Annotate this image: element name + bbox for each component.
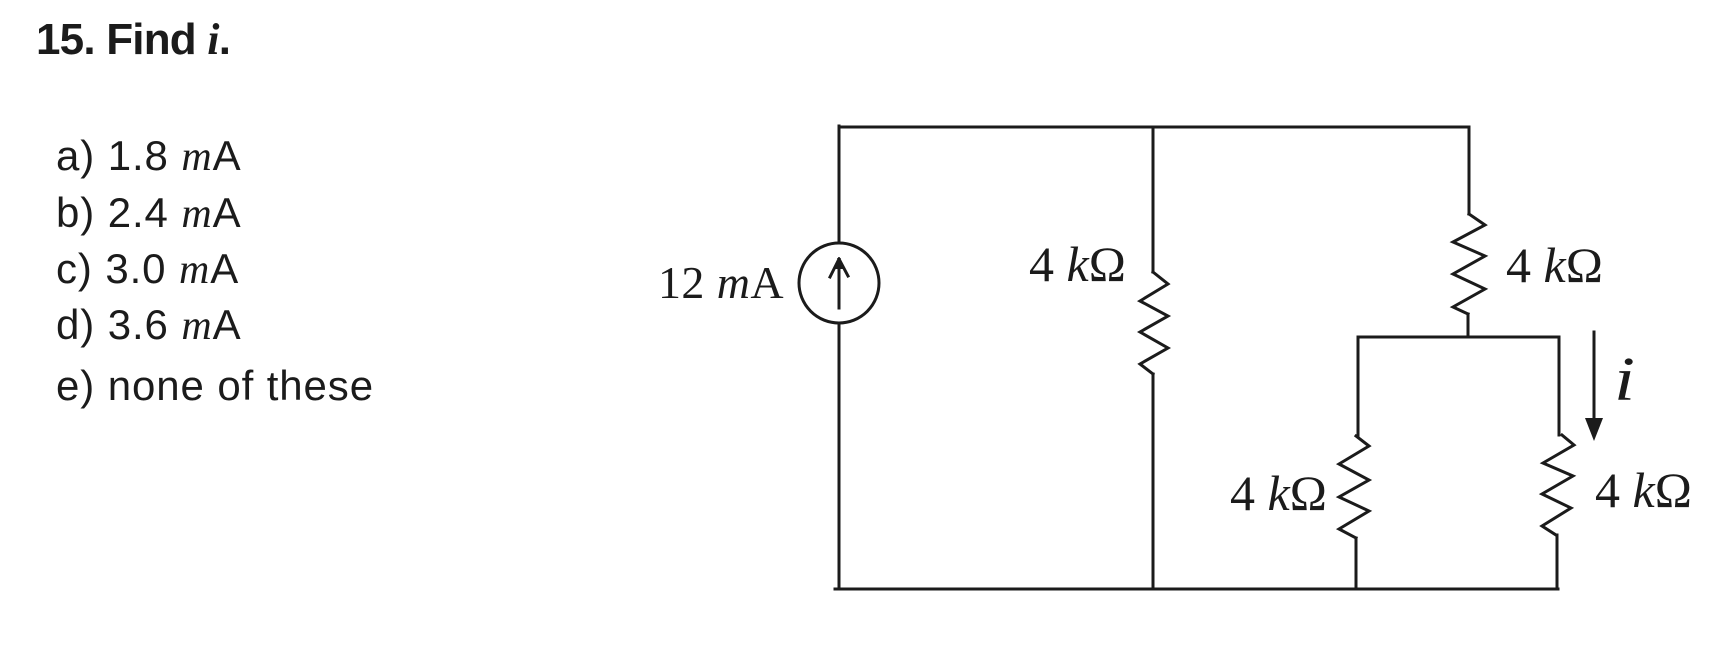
wire middle branch upper bbox=[1152, 127, 1155, 272]
svg-text:4 kΩ: 4 kΩ bbox=[1506, 237, 1603, 293]
resistor R3 4 kOhm bottom-left zigzag bbox=[1339, 436, 1369, 538]
option a bbox=[56, 135, 242, 178]
wire middle branch lower bbox=[1152, 374, 1155, 589]
wire right branch upper bbox=[1468, 127, 1471, 214]
option b bbox=[56, 192, 242, 235]
wire inner-left branch upper bbox=[1357, 337, 1360, 436]
option c bbox=[56, 248, 239, 291]
resistor R1 4 kOhm middle zigzag bbox=[1140, 272, 1168, 374]
wire left branch upper bbox=[838, 126, 841, 243]
wire bottom horizontal bbox=[835, 588, 1558, 591]
wire left branch lower bbox=[838, 324, 841, 589]
wire inner horizontal bbox=[1358, 336, 1559, 339]
current arrow i bbox=[1593, 332, 1596, 419]
wire inner-left branch lower bbox=[1355, 538, 1358, 589]
wire top horizontal bbox=[839, 126, 1469, 129]
current source arrow bbox=[830, 259, 848, 308]
svg-text:4 kΩ: 4 kΩ bbox=[1230, 465, 1327, 521]
svg-text:i: i bbox=[1614, 344, 1635, 413]
option d bbox=[56, 304, 242, 347]
current source I1 12 mA circle bbox=[799, 243, 879, 323]
svg-text:4 kΩ: 4 kΩ bbox=[1595, 462, 1692, 518]
resistor R2 4 kOhm top-right zigzag bbox=[1453, 214, 1485, 314]
title: 15. Find i. bbox=[36, 18, 230, 62]
svg-text:4 kΩ: 4 kΩ bbox=[1029, 236, 1126, 292]
resistor R4 4 kOhm bottom-right zigzag bbox=[1542, 435, 1574, 535]
option e bbox=[56, 365, 374, 407]
wire inner-right branch upper bbox=[1558, 338, 1561, 435]
wire right branch stub to inner node bbox=[1467, 314, 1470, 337]
svg-text:12 mA: 12 mA bbox=[658, 257, 784, 308]
wire inner-right branch lower bbox=[1556, 535, 1559, 589]
